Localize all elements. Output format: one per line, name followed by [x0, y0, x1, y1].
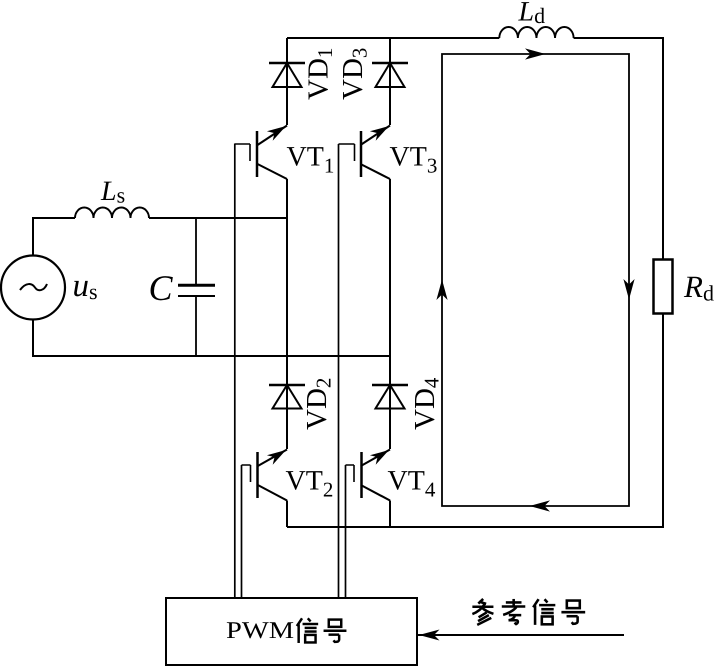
loop arrow bottom (left) — [530, 500, 551, 511]
svg-text:VD3: VD3 — [337, 48, 372, 100]
loop arrow top (right) — [525, 48, 546, 59]
svg-text:VT1: VT1 — [287, 142, 335, 178]
loop arrow left (up) — [436, 280, 447, 301]
wire AC top rail — [149, 217, 287, 219]
load current loop — [442, 54, 629, 506]
svg-text:VT4: VT4 — [388, 466, 436, 502]
resistor Rd — [654, 260, 673, 314]
label PWM信号 char 信 — [297, 618, 318, 643]
loop arrow right (down) — [623, 279, 634, 300]
diode VD1 — [269, 63, 305, 87]
wire top DC rail right segment and right vertical top — [574, 38, 663, 260]
tilde inside source — [20, 284, 47, 290]
inductor Ld — [499, 27, 573, 38]
wire right leg lower — [389, 501, 391, 528]
wire left leg lower — [286, 501, 288, 528]
diode VD4 — [372, 385, 408, 409]
svg-text:PWM: PWM — [226, 618, 294, 644]
transistor VT3 — [339, 126, 391, 180]
wire top DC rail left segment — [287, 37, 499, 39]
wire capacitor bottom branch — [195, 297, 197, 356]
wire right leg upper — [389, 38, 391, 125]
wire capacitor top branch — [195, 218, 197, 284]
svg-text:VT3: VT3 — [390, 142, 438, 178]
AC source circle — [1, 256, 65, 320]
capacitor C plates — [178, 284, 215, 287]
wire gate VT4 to PWM — [345, 465, 347, 598]
transistor VT2 — [242, 450, 288, 501]
svg-text:Ls: Ls — [100, 176, 125, 208]
wire gate VT3 to PWM — [338, 144, 340, 598]
transistor VT4 — [346, 450, 391, 501]
label 参考信号 char 号 — [561, 601, 585, 624]
wire right leg middle — [389, 179, 391, 449]
wire gate VT1 to PWM — [234, 144, 236, 599]
svg-text:VT2: VT2 — [286, 466, 334, 502]
wire left leg middle — [286, 179, 288, 449]
wire source top — [33, 218, 75, 256]
diode VD3 — [372, 63, 408, 87]
wire gate VT2 to PWM — [241, 465, 243, 598]
svg-text:VD4: VD4 — [409, 377, 444, 430]
label 参考信号 char 考 — [502, 599, 525, 624]
wire source bottom and AC bottom rail — [33, 320, 390, 357]
reference signal arrowhead — [419, 630, 440, 641]
inductor Ls — [75, 208, 149, 218]
svg-text:Rd: Rd — [683, 269, 714, 306]
label PWM信号 char 号 — [324, 620, 347, 642]
svg-text:VD2: VD2 — [301, 378, 336, 430]
wire right vertical bottom and bottom DC rail — [287, 314, 663, 528]
label 参考信号 char 参 — [472, 599, 493, 625]
svg-text:C: C — [149, 268, 174, 308]
PWM signal box — [166, 598, 417, 665]
wire left leg upper — [286, 38, 288, 125]
label 参考信号 char 信 — [533, 599, 555, 625]
svg-text:VD1: VD1 — [303, 48, 338, 100]
transistor VT1 — [235, 126, 287, 180]
svg-text:us: us — [73, 268, 98, 304]
diode VD2 — [269, 385, 305, 409]
svg-text:Ld: Ld — [518, 0, 546, 28]
reference signal arrow wire — [417, 634, 624, 636]
